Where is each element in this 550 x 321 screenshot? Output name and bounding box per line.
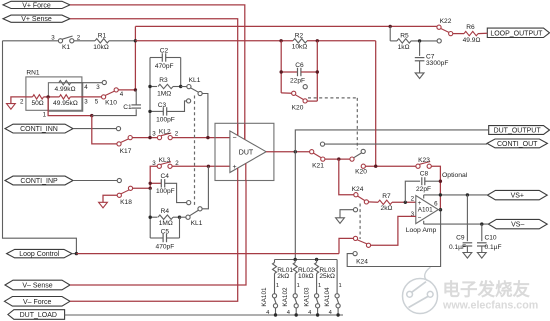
svg-text:3: 3 <box>152 160 156 167</box>
svg-text:C1: C1 <box>123 104 132 111</box>
svg-text:3: 3 <box>51 35 55 42</box>
svg-text:V+ Sense: V+ Sense <box>21 16 52 23</box>
svg-text:K22: K22 <box>440 18 452 25</box>
svg-text:KL2: KL2 <box>159 128 171 135</box>
svg-text:R7: R7 <box>382 193 391 200</box>
svg-text:C4: C4 <box>160 173 169 180</box>
svg-text:K24: K24 <box>352 186 364 193</box>
svg-text:100pF: 100pF <box>156 116 175 123</box>
svg-text:2: 2 <box>175 131 179 138</box>
svg-text:R2: R2 <box>295 33 304 40</box>
svg-text:+: + <box>418 200 422 207</box>
svg-text:KA102: KA102 <box>282 287 289 307</box>
svg-text:2: 2 <box>411 195 415 202</box>
svg-text:DUT_LOAD: DUT_LOAD <box>20 312 57 319</box>
svg-text:CONTI_OUT: CONTI_OUT <box>497 141 538 148</box>
svg-text:CONTI_INP: CONTI_INP <box>20 178 58 185</box>
svg-text:KA101: KA101 <box>261 287 268 307</box>
svg-text:K20: K20 <box>355 168 367 175</box>
svg-text:3: 3 <box>96 84 100 91</box>
svg-text:C5: C5 <box>161 229 170 236</box>
svg-text:R6: R6 <box>466 24 475 31</box>
svg-text:K21: K21 <box>312 162 324 169</box>
svg-text:C6: C6 <box>295 62 304 69</box>
svg-text:1: 1 <box>43 112 47 119</box>
svg-text:KL3: KL3 <box>159 157 171 164</box>
svg-text:VS–: VS– <box>511 222 524 229</box>
svg-text:10kΩ: 10kΩ <box>298 273 314 280</box>
svg-text:Loop Amp: Loop Amp <box>406 227 437 234</box>
svg-text:100pF: 100pF <box>156 188 175 195</box>
svg-text:22pF: 22pF <box>416 186 431 193</box>
svg-text:V– Force: V– Force <box>23 299 52 306</box>
svg-text:KA103: KA103 <box>303 287 310 307</box>
svg-text:49.9Ω: 49.9Ω <box>463 37 481 44</box>
svg-text:Loop Control: Loop Control <box>19 251 60 258</box>
svg-text:25kΩ: 25kΩ <box>319 273 335 280</box>
svg-text:KL1: KL1 <box>191 220 203 227</box>
svg-text:10kΩ: 10kΩ <box>292 43 308 50</box>
svg-text:50Ω: 50Ω <box>31 100 43 107</box>
svg-text:K23: K23 <box>418 157 430 164</box>
svg-text:1: 1 <box>276 283 279 289</box>
svg-text:0.1µF: 0.1µF <box>485 244 502 251</box>
svg-text:CONTI_INN: CONTI_INN <box>20 126 58 133</box>
svg-text:K17: K17 <box>120 148 132 155</box>
svg-text:K20: K20 <box>292 104 304 111</box>
svg-text:1: 1 <box>318 283 321 289</box>
svg-text:C2: C2 <box>160 47 169 54</box>
svg-text:Optional: Optional <box>442 172 468 179</box>
svg-text:1: 1 <box>297 283 300 289</box>
svg-text:K1: K1 <box>62 44 70 51</box>
svg-text:4.99kΩ: 4.99kΩ <box>54 86 75 93</box>
svg-text:KL1: KL1 <box>189 77 201 84</box>
svg-text:RN1: RN1 <box>26 69 40 76</box>
svg-text:3: 3 <box>84 98 88 105</box>
svg-text:R1: R1 <box>98 33 107 40</box>
svg-text:DUT_OUTPUT: DUT_OUTPUT <box>494 128 542 135</box>
svg-text:1MΩ: 1MΩ <box>159 220 173 227</box>
svg-text:C8: C8 <box>420 171 429 178</box>
svg-text:C3: C3 <box>158 102 167 109</box>
svg-text:4: 4 <box>120 91 124 98</box>
svg-text:2kΩ: 2kΩ <box>381 205 393 212</box>
svg-text:C9: C9 <box>456 235 465 242</box>
svg-text:10kΩ: 10kΩ <box>93 44 109 51</box>
svg-text:1: 1 <box>338 283 341 289</box>
svg-text:−: − <box>418 215 422 222</box>
svg-text:0.1µF: 0.1µF <box>449 244 466 251</box>
svg-text:R5: R5 <box>400 33 409 40</box>
svg-text:2: 2 <box>20 98 24 105</box>
svg-text:R4: R4 <box>161 208 170 215</box>
svg-text:1MΩ: 1MΩ <box>157 91 171 98</box>
svg-text:KA104: KA104 <box>324 287 331 307</box>
svg-text:1kΩ: 1kΩ <box>398 44 410 51</box>
svg-text:6: 6 <box>434 201 438 208</box>
svg-text:22pF: 22pF <box>290 78 305 85</box>
svg-text:49.95kΩ: 49.95kΩ <box>53 100 78 107</box>
svg-text:2kΩ: 2kΩ <box>277 273 289 280</box>
svg-text:A101: A101 <box>418 207 433 214</box>
svg-text:DUT: DUT <box>239 150 254 157</box>
svg-text:K18: K18 <box>120 199 132 206</box>
svg-text:3: 3 <box>152 131 156 138</box>
svg-text:V– Sense: V– Sense <box>22 283 52 290</box>
svg-text:K10: K10 <box>105 99 117 106</box>
svg-text:V+ Force: V+ Force <box>22 2 51 9</box>
svg-text:K24: K24 <box>356 258 368 265</box>
svg-text:VS+: VS+ <box>511 193 524 200</box>
svg-text:+: + <box>233 164 237 171</box>
svg-text:5: 5 <box>95 98 99 105</box>
svg-text:470pF: 470pF <box>155 63 174 70</box>
svg-text:3300pF: 3300pF <box>426 60 448 67</box>
svg-text:4: 4 <box>84 84 88 91</box>
svg-text:www.elecfans.com: www.elecfans.com <box>442 300 538 312</box>
svg-text:电子发烧友: 电子发烧友 <box>443 280 531 300</box>
svg-text:−: − <box>233 134 237 141</box>
svg-text:R3: R3 <box>159 77 168 84</box>
svg-text:470pF: 470pF <box>156 244 175 251</box>
svg-text:LOOP_OUTPUT: LOOP_OUTPUT <box>490 30 543 37</box>
svg-text:C10: C10 <box>485 235 497 242</box>
